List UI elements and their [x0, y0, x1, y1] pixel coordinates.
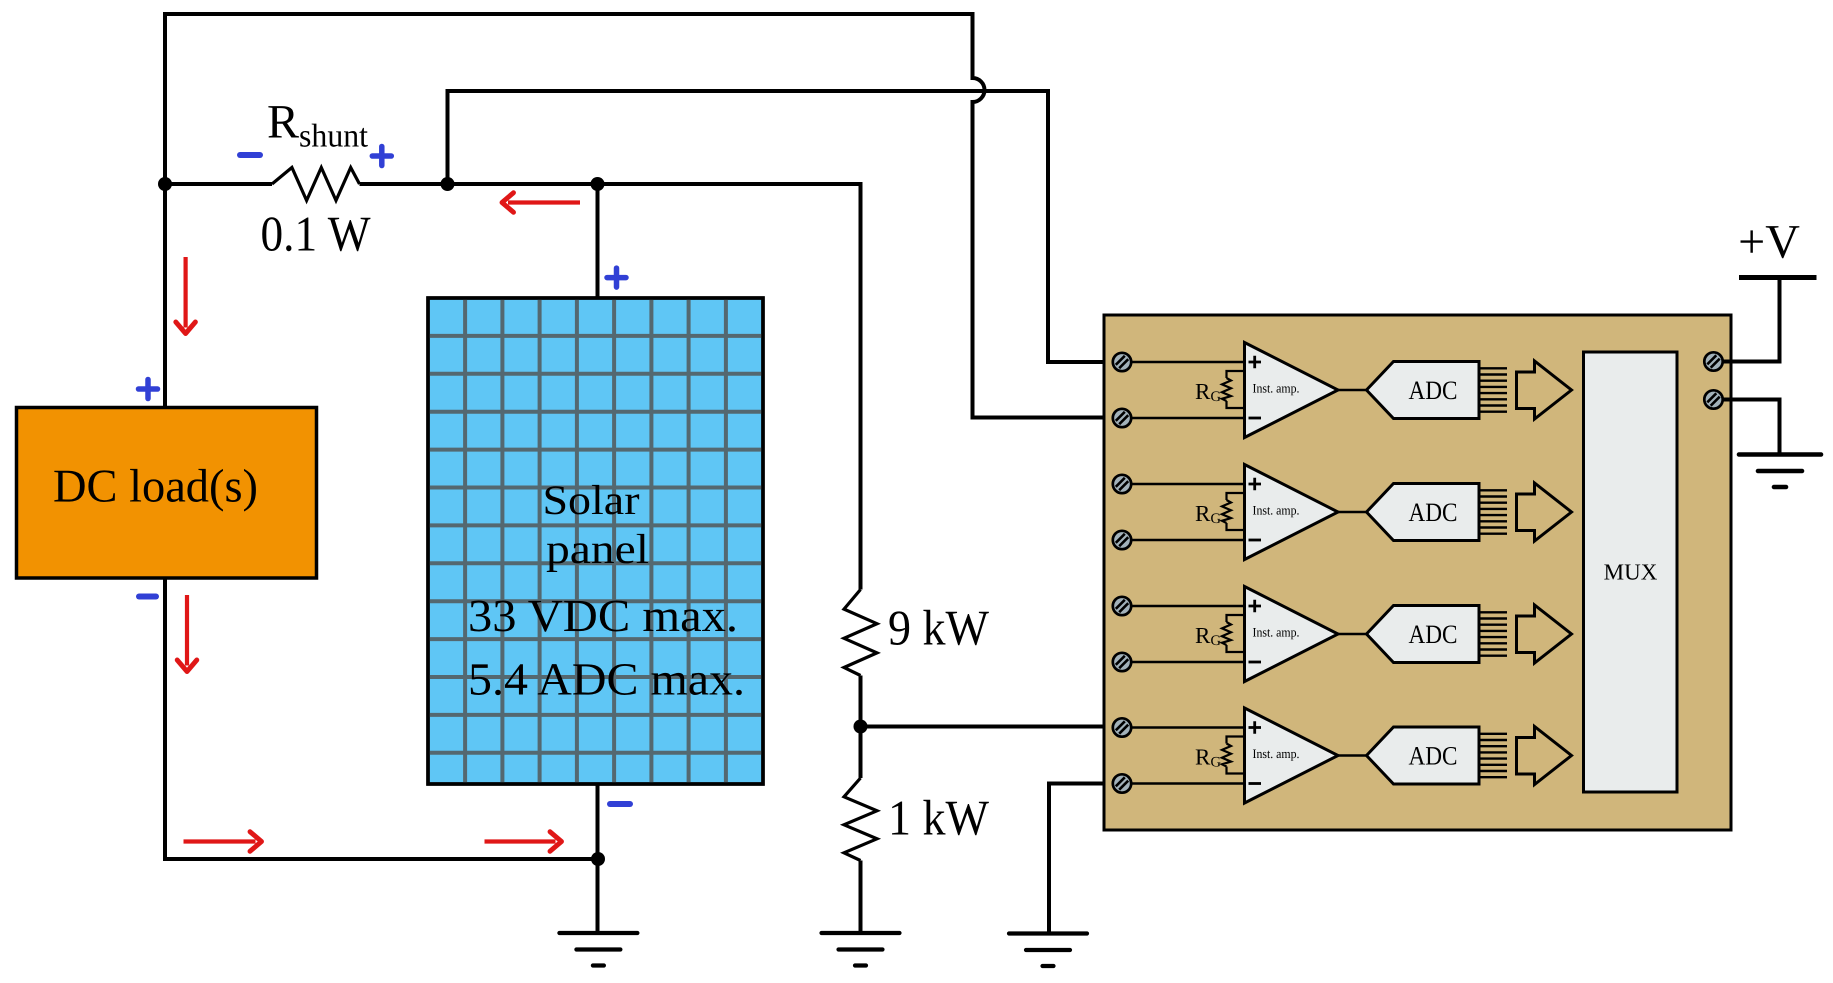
screw terminal CH4 plus: [1113, 718, 1131, 736]
op-amp U1 (instrumentation amplifier) triangle: [1245, 343, 1339, 438]
svg-text:+V: +V: [1738, 216, 1800, 269]
svg-text:G: G: [1211, 633, 1222, 649]
wire CH4 minus terminal to amp: [1131, 782, 1245, 785]
resistor R1 9 kW zigzag: [844, 590, 877, 676]
minus input mark of U1: [1249, 417, 1262, 420]
node D junction dot (ground bus / solar minus): [591, 852, 605, 866]
ground symbol under solar panel: [559, 933, 637, 966]
svg-text:ADC: ADC: [1409, 741, 1458, 771]
wire solar panel minus lead to ground: [596, 783, 600, 933]
svg-text:R: R: [1195, 501, 1211, 526]
wire divider middle segment through node to CH4: [861, 676, 1114, 779]
wire main horizontal left segment (node A to Rshunt): [165, 182, 272, 186]
wire DC load bottom to ground bus: [165, 578, 598, 859]
polarity plus (blue) above solar panel: [607, 268, 626, 287]
svg-text:G: G: [1211, 389, 1222, 405]
red current arrow right on ground bus (right): [485, 832, 562, 852]
+V supply rail bar: [1739, 275, 1817, 280]
wire CH3 minus terminal to amp: [1131, 661, 1245, 664]
svg-text:ADC: ADC: [1409, 497, 1458, 527]
screw terminal CH4 minus: [1113, 774, 1131, 792]
wire top loop from Rshunt left node to DAQ CH1 minus terminal (with hop over crossing): [165, 14, 1113, 418]
red current arrow right on ground bus (left): [184, 832, 262, 852]
bus arrow of CH2 into MUX: [1517, 483, 1572, 541]
wire CH3 plus terminal to amp: [1131, 605, 1245, 608]
digital bus lines of CH1: [1479, 368, 1507, 411]
bus arrow of CH1 into MUX: [1517, 361, 1572, 419]
svg-text:MUX: MUX: [1604, 560, 1658, 585]
resistor RG of CH2 with bracket: [1222, 493, 1245, 530]
wire CH1 plus terminal to amp: [1131, 361, 1245, 364]
svg-text:Inst. amp.: Inst. amp.: [1253, 503, 1300, 518]
resistor Rshunt zigzag: [272, 168, 360, 201]
node B junction dot (Rshunt right / sense wire): [441, 177, 455, 191]
wire +V supply terminal: [1723, 278, 1780, 362]
svg-text:G: G: [1211, 755, 1222, 771]
minus input mark of U3: [1249, 661, 1262, 664]
digital bus lines of CH4: [1479, 734, 1507, 777]
svg-text:9 kW: 9 kW: [888, 600, 990, 656]
screw terminal CH3 plus: [1113, 597, 1131, 615]
svg-text:Inst. amp.: Inst. amp.: [1253, 746, 1300, 761]
node C junction dot (solar panel plus): [591, 177, 605, 191]
svg-text:R: R: [1195, 623, 1211, 648]
ground symbol for supply: [1739, 455, 1821, 488]
red current arrow left from solar plus node: [502, 193, 580, 213]
DC load(s) box: [17, 408, 317, 579]
polarity plus (blue) right of Rshunt: [372, 147, 391, 166]
svg-text:G: G: [1211, 511, 1222, 527]
polarity minus (blue) left of Rshunt: [240, 152, 260, 158]
svg-text:ADC: ADC: [1409, 375, 1458, 405]
svg-text:panel: panel: [546, 527, 649, 573]
minus input mark of U2: [1249, 539, 1262, 542]
wire 1 kW to ground: [859, 861, 863, 934]
ADC4 block: [1367, 727, 1480, 784]
wire U3 output to ADC3: [1338, 633, 1367, 636]
wire CH4 plus terminal to amp: [1131, 726, 1245, 729]
DAQ module box (tan): [1104, 315, 1731, 830]
red current arrow down out of DC load: [177, 595, 197, 672]
plus input mark of U1: [1249, 356, 1262, 368]
svg-text:1 kW: 1 kW: [888, 790, 990, 846]
svg-text:Inst. amp.: Inst. amp.: [1253, 625, 1300, 640]
ground symbol under 1 kW resistor: [822, 933, 900, 966]
screw terminal CH3 minus: [1113, 653, 1131, 671]
solar panel box with grid: [428, 298, 763, 784]
screw terminal CH2 minus: [1113, 531, 1131, 549]
wire CH1 minus terminal to amp: [1131, 417, 1245, 420]
resistor RG of CH4 with bracket: [1222, 737, 1245, 774]
screw terminal CH1 plus: [1113, 353, 1131, 371]
minus input mark of U4: [1249, 782, 1262, 785]
screw terminal CH1 minus: [1113, 409, 1131, 427]
op-amp U3 (instrumentation amplifier) triangle: [1245, 587, 1339, 682]
svg-text:0.1 W: 0.1 W: [261, 206, 372, 262]
digital bus lines of CH2: [1479, 490, 1507, 533]
bus arrow of CH3 into MUX: [1517, 605, 1572, 663]
node A junction dot (Rshunt left / DC load): [158, 177, 172, 191]
screw terminal supply ground: [1704, 390, 1722, 408]
svg-text:Solar: Solar: [543, 478, 640, 524]
bus arrow of CH4 into MUX: [1517, 727, 1572, 785]
digital bus lines of CH3: [1479, 612, 1507, 655]
resistor RG of CH3 with bracket: [1222, 615, 1245, 652]
svg-text:DC load(s): DC load(s): [53, 461, 258, 513]
wire U1 output to ADC1: [1338, 389, 1367, 392]
screw terminal CH2 plus: [1113, 475, 1131, 493]
polarity minus (blue) below solar panel: [610, 801, 630, 807]
wire supply ground terminal: [1723, 400, 1780, 455]
wire DAQ CH4 minus terminal to ground: [1049, 784, 1113, 934]
MUX block: [1584, 352, 1678, 792]
red current arrow down into DC load: [176, 257, 196, 334]
resistor RG of CH1 with bracket: [1222, 371, 1245, 408]
wire U4 output to ADC4: [1338, 754, 1367, 757]
svg-text:ADC: ADC: [1409, 619, 1458, 649]
wire main horizontal right segment to divider branch: [360, 184, 861, 590]
node E junction dot (divider mid tap): [854, 720, 868, 734]
svg-text:5.4 ADC max.: 5.4 ADC max.: [468, 654, 745, 705]
wire solar panel plus lead: [596, 184, 600, 299]
wire CH2 plus terminal to amp: [1131, 483, 1245, 486]
svg-text:Inst. amp.: Inst. amp.: [1253, 381, 1300, 396]
polarity minus (blue) below DC load: [139, 594, 156, 600]
ground symbol for CH4 minus: [1009, 934, 1087, 967]
wire from Rshunt right node to DAQ CH1 plus terminal: [448, 91, 1114, 362]
wire U2 output to ADC2: [1338, 511, 1367, 514]
plus input mark of U3: [1249, 600, 1262, 612]
svg-text:33 VDC max.: 33 VDC max.: [468, 590, 738, 641]
op-amp U2 (instrumentation amplifier) triangle: [1245, 465, 1339, 560]
resistor R2 1 kW zigzag: [844, 778, 877, 861]
wire CH2 minus terminal to amp: [1131, 539, 1245, 542]
plus input mark of U2: [1249, 478, 1262, 490]
op-amp U4 (instrumentation amplifier) triangle: [1245, 708, 1339, 803]
svg-text:R: R: [1195, 379, 1211, 404]
ADC3 block: [1367, 606, 1480, 663]
ADC2 block: [1367, 484, 1480, 541]
screw terminal supply +V: [1704, 352, 1722, 370]
polarity plus (blue) above DC load: [139, 380, 158, 399]
ADC1 block: [1367, 362, 1480, 419]
plus input mark of U4: [1249, 721, 1262, 733]
svg-text:R: R: [1195, 745, 1211, 770]
